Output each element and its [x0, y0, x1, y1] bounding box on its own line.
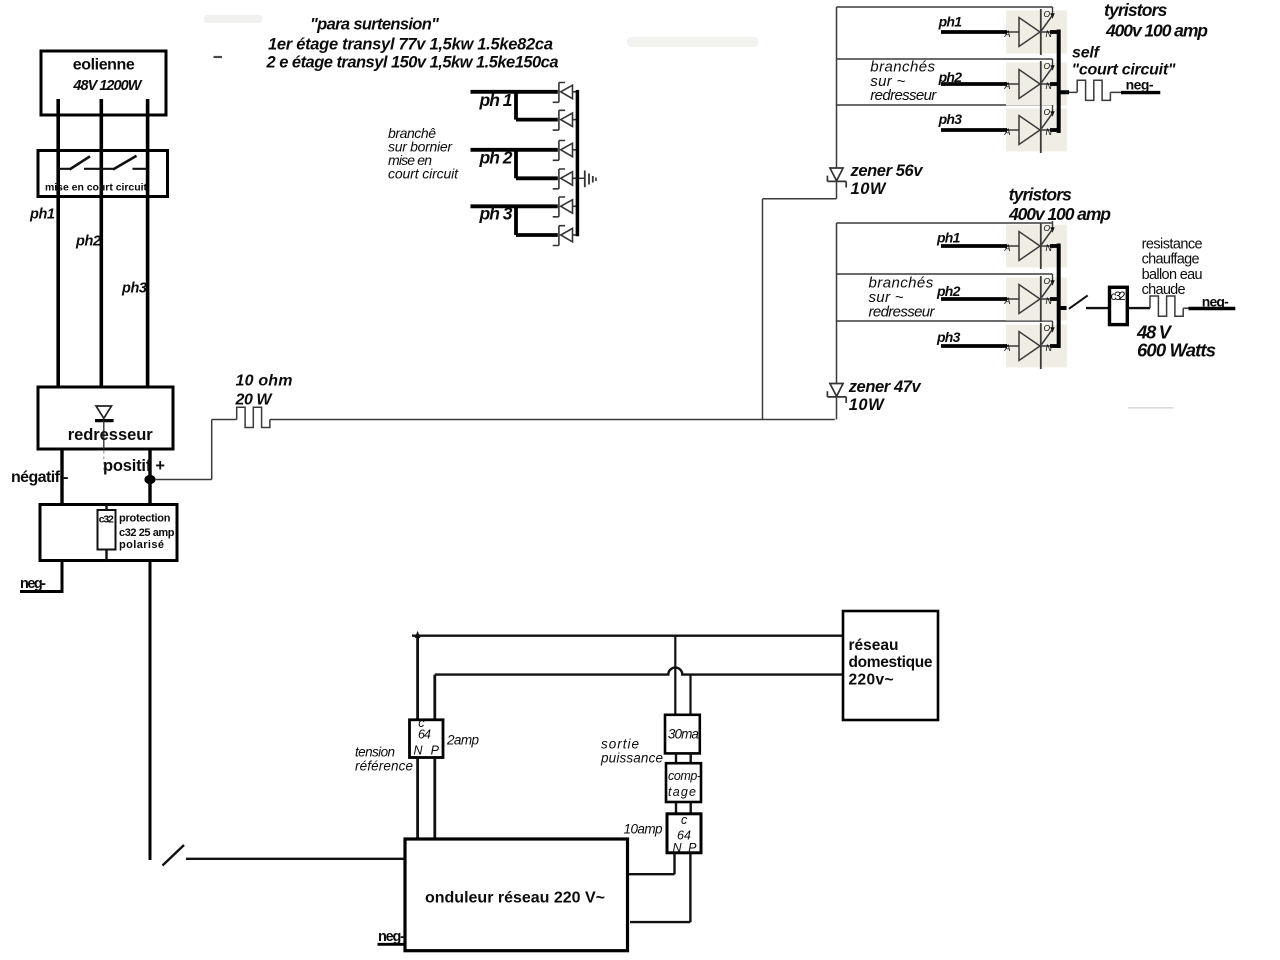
svg-text:"para surtension": "para surtension" [310, 16, 439, 34]
svg-text:mise en court circuit: mise en court circuit [45, 182, 148, 194]
svg-text:2amp: 2amp [446, 733, 479, 748]
svg-text:neg-: neg- [20, 576, 46, 592]
svg-text:ph 3: ph 3 [479, 204, 513, 224]
svg-text:neg-: neg- [1126, 77, 1154, 93]
svg-text:ph3: ph3 [938, 111, 963, 127]
svg-text:positif +: positif + [103, 457, 165, 475]
svg-text:ph1: ph1 [29, 207, 55, 223]
svg-text:domestique: domestique [849, 654, 933, 671]
svg-text:10W: 10W [851, 180, 887, 198]
svg-text:chauffage: chauffage [1142, 252, 1200, 268]
svg-text:neg-: neg- [1202, 294, 1229, 310]
svg-text:redresseur: redresseur [869, 304, 936, 321]
svg-text:polarisé: polarisé [119, 539, 164, 551]
svg-text:ph2: ph2 [936, 283, 961, 299]
svg-text:ph1: ph1 [938, 14, 963, 30]
svg-text:puissance: puissance [600, 751, 663, 766]
svg-text:N P: N P [673, 841, 698, 855]
svg-text:c32: c32 [1111, 289, 1126, 303]
svg-text:court circuit: court circuit [388, 166, 459, 182]
svg-text:30ma: 30ma [668, 727, 699, 742]
svg-text:600 Watts: 600 Watts [1137, 340, 1216, 361]
svg-text:c: c [681, 813, 688, 827]
svg-text:redresseur: redresseur [870, 87, 937, 104]
svg-text:self: self [1072, 45, 1101, 62]
svg-text:ph1: ph1 [936, 230, 961, 246]
svg-text:400v 100 amp: 400v 100 amp [1105, 21, 1208, 41]
svg-text:10W: 10W [849, 396, 885, 414]
svg-text:"court circuit": "court circuit" [1072, 62, 1176, 79]
svg-text:référence: référence [355, 759, 413, 774]
svg-text:ph2: ph2 [938, 69, 963, 85]
svg-text:sortie: sortie [601, 737, 639, 752]
svg-text:réseau: réseau [849, 637, 899, 654]
svg-text:N P: N P [414, 744, 440, 758]
svg-text:tension: tension [355, 745, 395, 760]
svg-text:64: 64 [418, 728, 431, 742]
svg-text:c32: c32 [99, 514, 114, 526]
svg-text:1er étage transyl 77v 1,5kw: 1er étage transyl 77v 1,5kw 1.5ke82ca [268, 36, 553, 54]
svg-text:négatif -: négatif - [11, 469, 69, 486]
svg-text:c32 25 amp: c32 25 amp [119, 527, 175, 539]
svg-text:ph 1: ph 1 [479, 90, 513, 110]
svg-text:10amp: 10amp [624, 822, 663, 837]
svg-text:ballon eau: ballon eau [1142, 267, 1203, 283]
svg-text:ph3: ph3 [121, 281, 147, 297]
svg-text:220v~: 220v~ [849, 672, 894, 689]
svg-text:ph 2: ph 2 [479, 148, 513, 168]
svg-text:protection: protection [119, 513, 171, 525]
svg-text:tyristors: tyristors [1104, 0, 1168, 20]
svg-text:10 ohm: 10 ohm [236, 373, 293, 390]
svg-text:tyristors: tyristors [1009, 185, 1073, 205]
svg-text:resistance: resistance [1142, 237, 1203, 253]
svg-text:neg-: neg- [378, 929, 405, 945]
svg-text:tage: tage [668, 785, 696, 799]
svg-text:onduleur réseau 220 V~: onduleur réseau 220 V~ [425, 890, 605, 907]
svg-text:eolienne: eolienne [73, 56, 135, 73]
svg-text:48V 1200W: 48V 1200W [72, 78, 142, 94]
svg-text:redresseur: redresseur [68, 426, 154, 444]
svg-text:ph2: ph2 [75, 234, 101, 250]
svg-text:zener 47v: zener 47v [848, 378, 922, 396]
svg-text:chaude: chaude [1142, 282, 1186, 298]
svg-text:2 e étage transyl 150v 1,5kw 1: 2 e étage transyl 150v 1,5kw 1.5ke150ca [266, 54, 559, 72]
svg-text:400v 100 amp: 400v 100 amp [1008, 204, 1111, 224]
svg-text:ph3: ph3 [936, 329, 961, 345]
svg-text:comp-: comp- [668, 769, 701, 783]
svg-text:20 W: 20 W [235, 392, 274, 409]
svg-text:zener 56v: zener 56v [850, 162, 924, 180]
